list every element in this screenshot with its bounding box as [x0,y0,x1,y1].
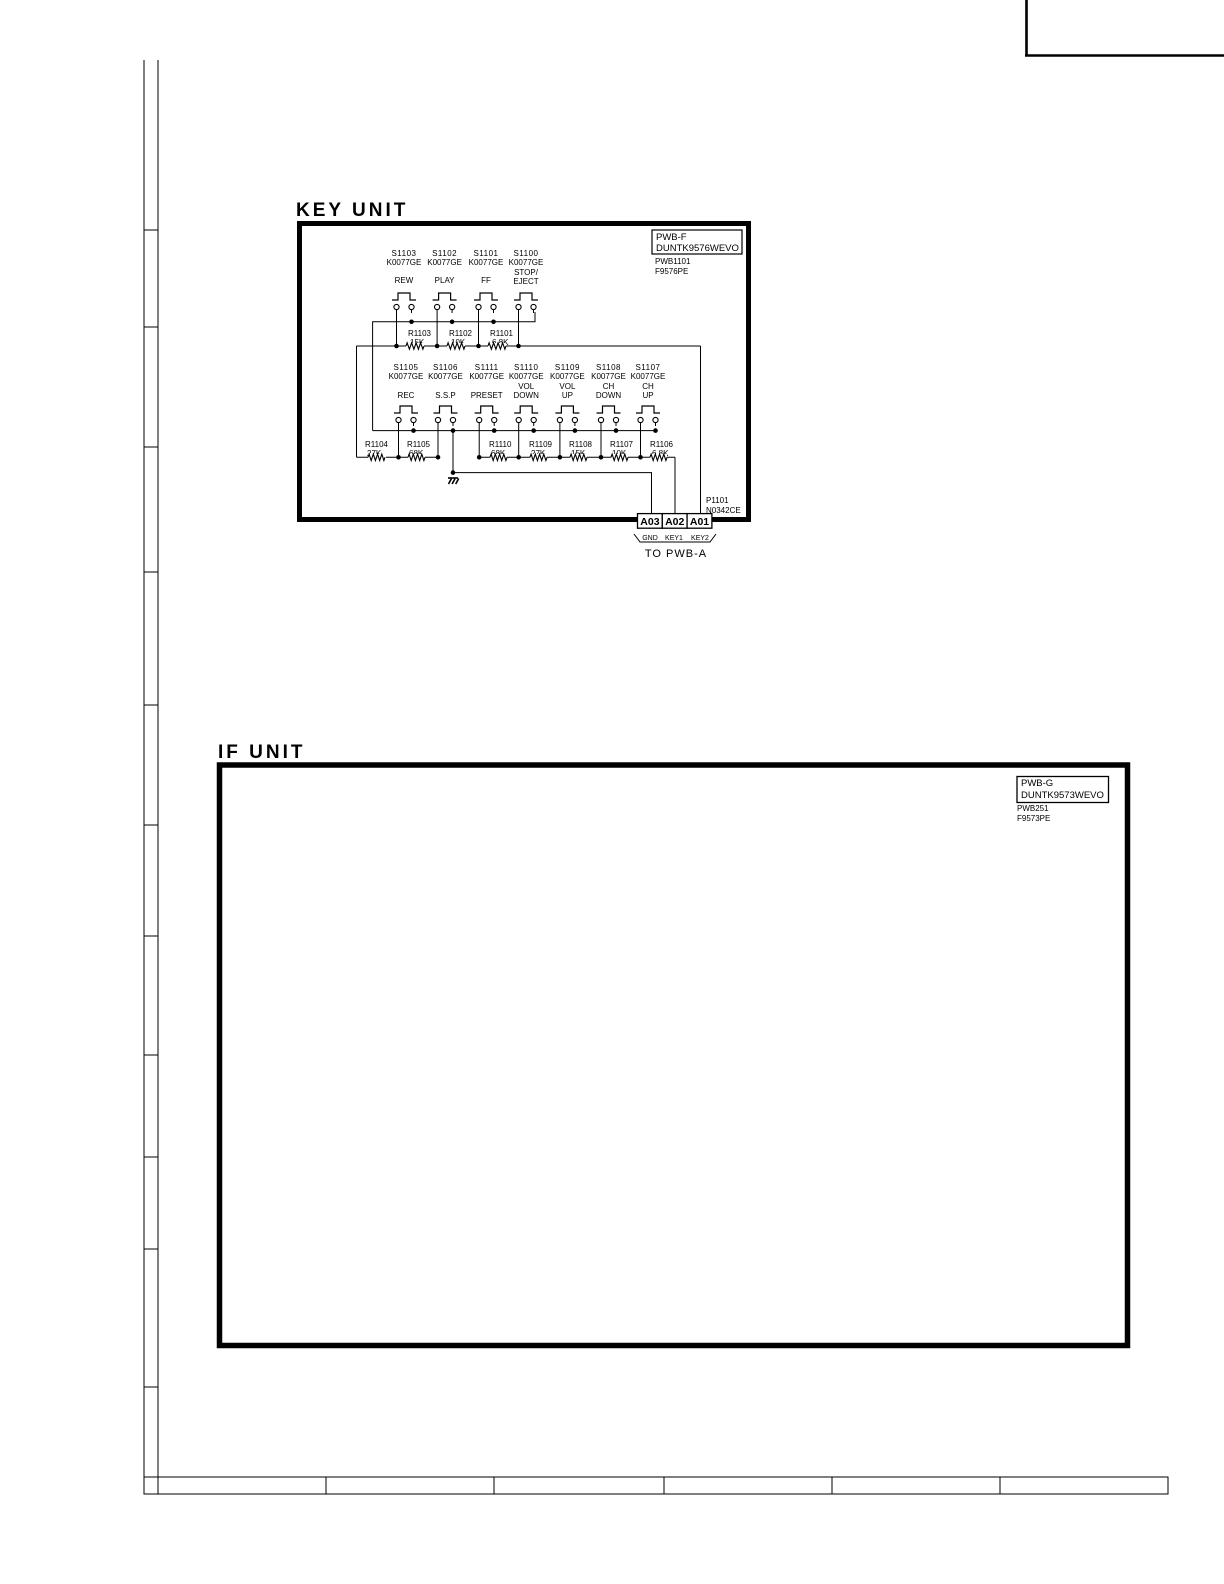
svg-text:PLAY: PLAY [435,276,456,285]
svg-text:R1106: R1106 [650,440,674,449]
svg-text:S1108: S1108 [596,363,621,372]
svg-text:VOL: VOL [518,382,535,391]
svg-text:KEY1: KEY1 [665,535,683,542]
IF UNIT board outline PWB-G [220,765,1128,1346]
switch S1103 [392,293,416,300]
svg-text:UP: UP [642,391,653,400]
svg-text:S1109: S1109 [555,363,580,372]
svg-text:K0077GE: K0077GE [389,372,424,381]
wire KEY2 chain row1 [357,345,701,347]
svg-text:VOL: VOL [559,382,576,391]
svg-text:S1110: S1110 [514,363,538,372]
connector A03 [638,514,663,529]
switch S1111 [475,406,499,413]
switch S1110 [514,406,538,413]
svg-text:K0077GE: K0077GE [550,372,585,381]
svg-text:K0077GE: K0077GE [509,372,544,381]
wire row1 left-terminal drops [396,313,398,346]
connector A02 [662,514,687,529]
ground KEY unit [448,478,459,484]
svg-text:R1108: R1108 [569,440,593,449]
wire GND S.S.P to ground and A03 [452,431,454,473]
svg-text:S1107: S1107 [635,363,660,372]
svg-text:K0077GE: K0077GE [509,258,544,267]
switch S1105 [394,406,418,413]
svg-text:P1101: P1101 [706,496,729,505]
svg-text:K0077GE: K0077GE [427,258,462,267]
PWB-G label box [1017,777,1109,803]
switch S1101 [474,293,498,300]
svg-text:CH: CH [642,382,654,391]
svg-text:F9573PE: F9573PE [1017,814,1050,823]
svg-text:A02: A02 [665,516,684,528]
connector A01 [687,514,712,529]
svg-text:DUNTK9573WEVO: DUNTK9573WEVO [1021,790,1104,801]
svg-text:GND: GND [642,535,658,542]
brace under connector [634,534,716,542]
svg-text:PRESET: PRESET [471,391,503,400]
svg-text:F9576PE: F9576PE [655,267,688,276]
wire row1 right-terminal bus [373,312,535,431]
svg-text:S1111: S1111 [475,363,499,372]
svg-text:STOP/: STOP/ [514,268,539,277]
wire row2 left-terminal drops [398,426,400,457]
svg-text:TO PWB-A: TO PWB-A [645,548,707,560]
svg-text:DOWN: DOWN [514,391,540,400]
svg-text:PWB251: PWB251 [1017,804,1049,813]
svg-text:REC: REC [398,391,415,400]
svg-text:R1109: R1109 [529,440,553,449]
switch S1109 [555,406,579,413]
page corner box top-right [1025,0,1028,56]
left ruler strip [143,60,145,1494]
svg-text:R1107: R1107 [610,440,634,449]
svg-text:CH: CH [603,382,615,391]
svg-text:R1102: R1102 [449,329,473,338]
KEY UNIT board outline PWB-F [300,224,749,520]
svg-text:FF: FF [481,276,491,285]
svg-text:PWB-G: PWB-G [1021,778,1053,789]
svg-text:K0077GE: K0077GE [469,258,504,267]
svg-text:S.S.P: S.S.P [435,391,455,400]
bottom table band [144,1477,1168,1494]
switch S1102 [433,293,457,300]
wire KEY1 chain row2 right segment [479,456,675,458]
svg-text:A01: A01 [690,516,709,528]
wire KEY2 to A01 [700,346,702,514]
svg-text:K0077GE: K0077GE [387,258,422,267]
svg-text:S1103: S1103 [391,249,416,258]
svg-text:IF UNIT: IF UNIT [218,742,306,763]
switch S1106 [434,406,458,413]
svg-text:R1105: R1105 [407,440,431,449]
wire KEY2 chain row2 left segment [357,456,438,458]
svg-text:R1104: R1104 [365,440,389,449]
switch S1108 [597,406,621,413]
svg-text:R1110: R1110 [489,440,512,449]
svg-text:K0077GE: K0077GE [469,372,504,381]
svg-text:S1105: S1105 [393,363,418,372]
svg-text:R1103: R1103 [408,329,432,338]
svg-text:S1101: S1101 [473,249,498,258]
PWB-F label box [652,230,742,254]
svg-text:S1100: S1100 [513,249,538,258]
wire row1-left chain drop to row2 [356,346,358,457]
switch S1107 [636,406,660,413]
wire KEY1 to A02 [674,457,676,513]
svg-text:R1101: R1101 [490,329,514,338]
svg-text:K0077GE: K0077GE [591,372,626,381]
wire row2 right-terminal bus GND [373,430,656,432]
svg-text:EJECT: EJECT [513,277,538,286]
svg-text:K0077GE: K0077GE [428,372,463,381]
svg-text:PWB-F: PWB-F [656,232,687,243]
svg-text:DOWN: DOWN [596,391,622,400]
svg-text:A03: A03 [640,516,659,528]
svg-text:DUNTK9576WEVO: DUNTK9576WEVO [656,243,739,254]
svg-text:S1106: S1106 [433,363,458,372]
svg-text:S1102: S1102 [432,249,457,258]
svg-text:KEY2: KEY2 [691,535,709,542]
svg-text:K0077GE: K0077GE [631,372,666,381]
svg-text:UP: UP [562,391,573,400]
svg-text:KEY UNIT: KEY UNIT [296,200,408,221]
svg-text:PWB1101: PWB1101 [655,257,691,266]
switch S1100 [514,293,538,300]
svg-text:REW: REW [395,276,414,285]
